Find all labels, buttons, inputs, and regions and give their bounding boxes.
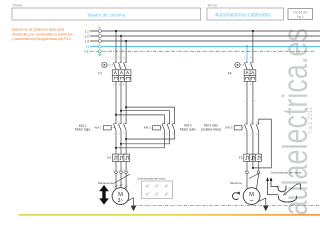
motor M1 [112,188,129,205]
KM2 pin numbers [162,122,174,136]
breaker F1 trip symbols [114,71,130,79]
rail N [90,45,320,47]
rail L1 [90,30,320,32]
svg-text:Marquesina: Marquesina [98,181,113,185]
breaker F1 pin numbers bottom [113,84,125,87]
svg-text:y automatismo programado por P: y automatismo programado por PLC [12,37,72,41]
ground wire left motor [127,198,134,206]
node tap L1 right branch [252,30,254,32]
coil KM1 [103,126,114,130]
supply connector X1 [98,25,102,53]
ground arrow left [131,206,137,212]
svg-text:F3: F3 [239,156,243,160]
wire F1 to KM1 pole3 [125,81,127,123]
KM1 pin numbers [113,122,125,136]
svg-text:Esquema de potencia apto para: Esquema de potencia apto para [12,28,65,32]
wire L3 to breaker F1 [125,41,127,62]
wire L1 to breaker F4 [252,31,254,62]
wire F4 to KM3 pole1 [246,81,248,124]
conexionado terminals [146,184,168,196]
coil KM2 [153,126,162,130]
thermal relay F2 box [113,154,130,161]
rail L3 [90,40,320,42]
rotation arrow [232,193,238,200]
svg-text:Tema: Tema [207,3,218,8]
svg-text:Conexionado del motor: Conexionado del motor [270,171,301,175]
conexionado box left [141,181,172,199]
node tap N right branch [246,45,248,47]
title box 2 [207,8,284,20]
svg-text:Motor baja: Motor baja [75,128,90,132]
svg-text:~: ~ [250,198,254,205]
page number box [288,9,313,20]
svg-text:KM 1: KM 1 [94,126,101,130]
wire markers right branch [244,101,256,103]
thermal relay F3 box [244,154,262,161]
wire A1 to KM2 pole1 [116,115,165,124]
right motor terminal circles [246,171,260,174]
svg-text:F2: F2 [107,156,111,160]
contactor KM3 contacts [244,124,259,131]
contactor KM1 contacts [113,123,126,130]
PE mini ground [98,53,101,56]
svg-text:X1: X1 [98,25,102,29]
motor terminal circles U V W [115,171,128,174]
node wrap join [252,167,254,169]
svg-text:Pg 4: Pg 4 [297,15,304,19]
winding cup 2 [279,196,297,202]
breaker F4 trip box [244,70,256,82]
breaker F1 contacts [113,62,126,70]
wire F2 to motor terminals [116,161,126,189]
wire KM3 pole1 down [246,131,248,154]
wire KM3 pole2 down [252,131,254,168]
motor entry ticks [115,184,128,188]
node A3 [125,106,127,108]
node A1 [115,114,117,116]
svg-text:N: N [86,45,89,49]
switch diagonal [283,184,301,196]
svg-text:desarrollo por automatismo cab: desarrollo por automatismo cableado [12,32,73,36]
motor M2 [243,188,260,205]
breaker F1 pin numbers top [113,57,125,60]
wire KM2 pole3 to B3 [126,130,174,139]
supply arrows [266,177,269,181]
svg-text:Conexionado del motor: Conexionado del motor [137,176,166,180]
svg-text:L1: L1 [85,29,89,33]
breaker F4 contacts [244,62,253,70]
contactor KM2 contacts [162,123,175,130]
KM3 pin numbers [244,122,258,136]
wire KM2 pole2 to B2 [121,130,170,143]
svg-text:L3: L3 [85,39,89,43]
right terminal labels [244,171,258,173]
breaker F1 trip box [112,70,131,82]
wire L2 to breaker F1 [120,36,122,62]
wire N to breaker F4 [246,46,248,62]
breaker F4 pin numbers top [244,57,252,60]
node tap L2 left branch [120,35,122,37]
wire F1 to KM1 pole1 [115,81,117,123]
wire L1 to breaker F1 [115,31,117,62]
svg-text:t.a.c 2011: t.a.c 2011 [308,106,314,133]
svg-text:Automatismos cableados: Automatismos cableados [215,13,271,19]
svg-text:Mandrino: Mandrino [230,181,242,185]
wire KM1 pole3 down [125,130,127,154]
label KM3 Giro probeta-mesa [201,123,221,131]
svg-text:Taladro de columna: Taladro de columna [87,13,126,18]
wire KM1 pole2 down [120,130,122,154]
wire A3 to KM2 pole3 [126,107,174,123]
svg-text:3~: 3~ [118,198,124,204]
breaker F4 actuator [235,62,244,67]
label KM2 Motor sube [180,123,196,131]
rail L2 [90,35,320,37]
wire F4 to KM3 pole2 [252,81,254,124]
wire KM3 pole3 down [258,131,260,154]
wire A2 to KM2 pole2 [121,111,170,124]
rail labels [84,29,89,53]
ground wire right motor [258,198,266,206]
node A2 [120,110,122,112]
svg-text:Motor sube: Motor sube [180,127,196,131]
wire KM1 pole1 down [115,130,117,154]
wire KM3 pole3 wrap top [253,119,271,168]
svg-text:L2: L2 [85,34,89,38]
terminal labels [113,171,126,173]
conexionado right diagram [268,180,279,195]
wire KM2 pole1 to B1 [116,130,165,147]
node tap L1 left branch [115,30,117,32]
breaker F4 trip symbols [245,71,254,79]
svg-text:PE: PE [84,50,89,54]
svg-text:KM 3: KM 3 [225,126,232,130]
winding cup 1 [278,186,286,192]
wire F3 pole1 to motor [246,161,248,189]
svg-text:KM 2: KM 2 [144,126,151,130]
watermark aulaelectrica.es [276,28,315,215]
right cable slash [249,173,260,179]
breaker F1 actuator [102,62,113,67]
ground arrow right [263,206,269,212]
svg-text:probeta-mesa: probeta-mesa [201,127,221,131]
thermal relay F3 elements [245,156,260,159]
wire F3 pole3 to motor [257,161,259,189]
note orange text [12,28,73,41]
svg-text:F1: F1 [98,72,102,76]
svg-text:Título: Título [12,3,23,8]
wire F1 to KM1 pole2 [120,81,122,123]
coil KM3 [234,126,244,130]
node B2 [120,143,122,145]
node B1 [115,147,117,149]
breaker F4 pin numbers bottom [244,84,252,87]
PE bottom wire [134,205,320,207]
svg-text:F4: F4 [228,72,232,76]
label KM1 Motor baja [75,124,90,132]
thermal relay F2 elements [114,156,128,159]
node tap L3 left branch [125,40,127,42]
node B3 [125,138,127,140]
cable slash [114,174,131,184]
up-down arrow [99,185,109,205]
rail PE [90,50,315,52]
title box 1 [12,8,201,20]
